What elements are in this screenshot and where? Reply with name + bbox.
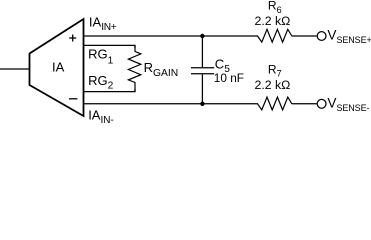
svg-text:IAIN-: IAIN-	[88, 108, 113, 125]
svg-text:R6: R6	[268, 0, 282, 15]
svg-text:VSENSE+: VSENSE+	[327, 28, 371, 45]
terminal VSENSE- (open circle)	[317, 99, 326, 108]
IA noninverting input marker +	[69, 35, 76, 42]
svg-text:VSENSE-: VSENSE-	[327, 96, 369, 113]
svg-text:IA: IA	[52, 60, 65, 75]
svg-text:RG1: RG1	[88, 47, 114, 67]
terminal VSENSE+ (open circle)	[317, 32, 326, 41]
svg-text:2.2 kΩ: 2.2 kΩ	[255, 14, 291, 28]
svg-text:2.2 kΩ: 2.2 kΩ	[255, 78, 291, 92]
wire: R7 to VSENSE- terminal	[292, 103, 317, 105]
svg-text:IAIN+: IAIN+	[89, 14, 117, 33]
wire: RG1 pin	[84, 45, 136, 48]
svg-text:R7: R7	[268, 62, 282, 78]
wire: IA_IN- rail	[84, 103, 259, 105]
junction node (top rail / C5)	[200, 34, 204, 38]
junction node (bottom rail / C5)	[200, 102, 204, 106]
IA inverting input marker -	[69, 98, 77, 100]
wire: IA output lead (left)	[0, 68, 30, 70]
resistor R7 (zigzag)	[258, 97, 292, 110]
op-amp IA (instrumentation amplifier body)	[30, 19, 84, 116]
wire: RG2 pin	[84, 89, 136, 92]
svg-text:RG2: RG2	[88, 73, 114, 92]
svg-text:10 nF: 10 nF	[214, 71, 244, 85]
svg-text:RGAIN: RGAIN	[144, 60, 179, 79]
wire: R6 to VSENSE+ terminal	[292, 35, 317, 37]
resistor R6 (zigzag)	[258, 29, 292, 42]
wire: IA_IN+ rail	[84, 35, 259, 37]
capacitor C5	[191, 36, 214, 104]
resistor RGAIN (vertical zigzag)	[128, 46, 140, 92]
